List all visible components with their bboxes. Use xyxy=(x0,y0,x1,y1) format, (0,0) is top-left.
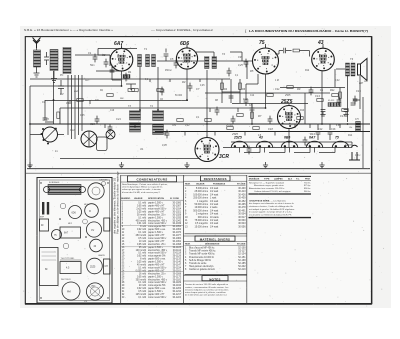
extra tiny value labels xyxy=(66,64,359,147)
svg-text:0,02 mfd: 0,02 mfd xyxy=(137,288,147,290)
svg-text:0,05 mfd: 0,05 mfd xyxy=(137,206,147,208)
svg-text:15.000 ohms: 15.000 ohms xyxy=(195,226,209,228)
table header band rules xyxy=(121,176,247,281)
capacitor C24 xyxy=(244,100,249,106)
dial lamp xyxy=(106,130,115,139)
svg-text:mica moulé 500 v: mica moulé 500 v xyxy=(148,282,167,284)
svg-text:0,02: 0,02 xyxy=(335,80,340,82)
chassis: IF can xyxy=(85,204,99,218)
svg-text:CONDENSATEURS: CONDENSATEURS xyxy=(136,178,167,182)
resistor R17 vertical xyxy=(239,83,242,89)
svg-text:30-1147: 30-1147 xyxy=(173,265,182,267)
svg-text:40 mmfd: 40 mmfd xyxy=(137,265,147,267)
heater 6A7 xyxy=(306,141,322,147)
svg-text:30-1224: 30-1224 xyxy=(172,297,181,299)
svg-text:8 mfd: 8 mfd xyxy=(140,259,147,261)
svg-text:DÉSIGNATION: DÉSIGNATION xyxy=(205,243,220,246)
svg-text:C18: C18 xyxy=(268,127,273,131)
svg-text:1 watt: 1 watt xyxy=(210,197,217,200)
condensateurs intro paragraph xyxy=(122,183,168,194)
header brace xyxy=(245,28,247,33)
resistor R21 xyxy=(57,112,60,118)
svg-text:3CR: 3CR xyxy=(219,154,229,160)
condensateurs group rules xyxy=(121,226,183,272)
svg-text:75: 75 xyxy=(335,136,339,140)
tube 6A7 xyxy=(110,46,133,71)
svg-text:0,1 mfd: 0,1 mfd xyxy=(138,282,146,284)
chassis: tube 6D6 location xyxy=(69,206,82,219)
capacitor C23 xyxy=(229,96,234,98)
heater 43 xyxy=(256,141,272,147)
volume potentiometer with switch xyxy=(41,127,58,145)
svg-text:C13: C13 xyxy=(315,94,320,98)
svg-text:C14: C14 xyxy=(318,128,323,131)
svg-text:8 mfd: 8 mfd xyxy=(140,226,147,228)
screen bypass near 6D6 xyxy=(230,52,242,61)
chassis: tuning condenser CV xyxy=(86,222,101,237)
svg-text:0,1 mfd: 0,1 mfd xyxy=(138,217,146,219)
svg-text:R1: R1 xyxy=(128,70,132,74)
svg-text:C1: C1 xyxy=(88,51,92,55)
svg-text:PHI: PHI xyxy=(67,292,71,294)
svg-text:30-1140: 30-1140 xyxy=(173,262,182,264)
svg-text:N°CODE: N°CODE xyxy=(237,244,246,246)
svg-text:30-1112: 30-1112 xyxy=(173,250,182,252)
svg-text:0,5 mfd: 0,5 mfd xyxy=(138,291,146,293)
svg-text:875 frs: 875 frs xyxy=(304,185,311,187)
svg-text:25Z5: 25Z5 xyxy=(280,99,293,105)
svg-text:25Z5: 25Z5 xyxy=(233,136,242,140)
svg-text:HP: HP xyxy=(92,286,96,288)
svg-text:AP: AP xyxy=(363,79,368,83)
resistor network between 6D6 and 75 xyxy=(222,79,240,103)
svg-text:30-1168: 30-1168 xyxy=(173,273,182,275)
switch contacts near volume xyxy=(30,134,64,136)
svg-text:MATÉRIEL DIVERS: MATÉRIEL DIVERS xyxy=(200,236,231,241)
svg-text:continu ; consommation 40 watt: continu ; consommation 40 watts environ.… xyxy=(185,286,228,289)
chassis: mounting dots xyxy=(40,182,108,298)
svg-text:Ebenisterie noyer, grande séri: Ebenisterie noyer, grande série xyxy=(254,184,284,187)
svg-text:1/4 watt: 1/4 watt xyxy=(210,222,219,225)
table column rules xyxy=(121,175,247,304)
svg-text:0,05: 0,05 xyxy=(80,115,85,117)
svg-text:30-1014: 30-1014 xyxy=(172,209,181,211)
svg-text:papier 400 v HT: papier 400 v HT xyxy=(148,264,165,267)
svg-text:mica moulé 500 v: mica moulé 500 v xyxy=(148,223,167,225)
svg-text:mica moulé 500 v: mica moulé 500 v xyxy=(148,238,167,240)
detector wire from 6D6 to 75 xyxy=(196,52,214,57)
grid resistor R19 under 6A7 xyxy=(123,75,130,79)
svg-text:250.000 ohms: 250.000 ohms xyxy=(193,198,209,200)
svg-text:30-1000: 30-1000 xyxy=(172,203,181,205)
IF transformer T3 winding a xyxy=(130,111,141,133)
resistor R18 vertical xyxy=(251,112,254,118)
resistor R22 xyxy=(339,92,342,98)
osc grid line xyxy=(98,55,110,66)
svg-text:125 mmfd: 125 mmfd xyxy=(136,294,147,296)
svg-text:1/2 watt: 1/2 watt xyxy=(210,219,219,222)
svg-text:papier 400 v HT: papier 400 v HT xyxy=(148,234,165,237)
svg-text:C17: C17 xyxy=(340,114,345,118)
svg-text:GO: GO xyxy=(85,80,89,82)
svg-text:R3: R3 xyxy=(182,80,186,84)
notes paragraph xyxy=(185,283,229,296)
svg-text:papier 600 v ess.: papier 600 v ess. xyxy=(148,287,166,290)
svg-text:30-543: 30-543 xyxy=(238,223,246,225)
svg-text:52-219: 52-219 xyxy=(238,269,246,271)
chassis: small grommet xyxy=(60,203,66,209)
svg-text:750 frs: 750 frs xyxy=(304,182,311,184)
svg-text:tensions indiquées au schéma s: tensions indiquées au schéma sont mesuré… xyxy=(185,288,228,291)
svg-text:C5: C5 xyxy=(170,57,174,61)
header text left: M.B.E. n 16 Boulevard Exterieur Reproduction Interdite xyxy=(24,28,113,32)
svg-text:Alimentation tous courants 110: Alimentation tous courants 110-130 v. xyxy=(249,187,285,190)
svg-text:T.C.: T.C. xyxy=(296,178,300,180)
svg-text:papier 1.500 v: papier 1.500 v xyxy=(148,202,164,205)
svg-text:papier 1.500 v: papier 1.500 v xyxy=(148,261,164,264)
svg-text:C16: C16 xyxy=(331,128,336,131)
resistor R20 xyxy=(128,89,134,92)
svg-text:30-1126: 30-1126 xyxy=(173,256,182,258)
svg-text:le courant appelé ; la lampe t: le courant appelé ; la lampe témoin 6 v.… xyxy=(249,211,293,214)
chassis: loudspeaker xyxy=(86,283,103,300)
capacitors scattered (C3..C22) xyxy=(93,54,358,155)
svg-text:électrochim. 25 v: électrochim. 25 v xyxy=(148,243,166,246)
cathode parts under 6A7 xyxy=(112,66,136,90)
condensateurs rows xyxy=(122,202,182,299)
junction dots xyxy=(29,85,348,143)
svg-text:6A7: 6A7 xyxy=(114,41,123,47)
svg-text:électrochim. 450 v: électrochim. 450 v xyxy=(148,249,168,252)
wire bus horizontal set xyxy=(30,49,352,159)
svg-text:Vol.: Vol. xyxy=(140,149,144,151)
svg-text:1/2 watt: 1/2 watt xyxy=(210,190,219,193)
B- bus wire xyxy=(155,131,370,133)
svg-text:mica moulé 500 v: mica moulé 500 v xyxy=(148,253,167,255)
svg-text:R11: R11 xyxy=(330,88,335,92)
trimmer capacitor C1 xyxy=(44,52,49,65)
svg-text:papier 600 v ess.: papier 600 v ess. xyxy=(148,258,166,261)
svg-text:0,1 mfd: 0,1 mfd xyxy=(138,232,146,234)
svg-text:30-1077: 30-1077 xyxy=(172,235,181,237)
svg-text:papier 400 v HT: papier 400 v HT xyxy=(148,269,165,272)
resistances table header xyxy=(201,176,231,181)
svg-text:est indiqué à gauche. Un balla: est indiqué à gauche. Un ballast 3CR rég… xyxy=(249,208,295,211)
loudspeaker HP xyxy=(358,59,368,81)
svg-text:500.000 ohms: 500.000 ohms xyxy=(193,210,209,212)
svg-text:110 v: 110 v xyxy=(355,155,361,157)
svg-text:0,05 mfd: 0,05 mfd xyxy=(137,276,147,278)
svg-text:52-202: 52-202 xyxy=(238,266,246,268)
svg-text:30-439: 30-439 xyxy=(238,198,246,200)
chassis ground bus wire xyxy=(27,168,370,170)
svg-text:papier 400 v HT: papier 400 v HT xyxy=(148,205,165,208)
label 75 xyxy=(259,40,265,46)
svg-text:0,1 mfd: 0,1 mfd xyxy=(138,253,146,255)
materiel divers column header xyxy=(185,243,246,246)
svg-text:mica argenté 5%: mica argenté 5% xyxy=(148,284,165,287)
svg-text:VALEUR: VALEUR xyxy=(134,197,143,200)
svg-text:CH: CH xyxy=(105,266,109,268)
chassis: label TH PITT xyxy=(60,258,81,260)
header text middle: Importateur DANIEL xyxy=(151,28,213,32)
capacitor C27 top mid xyxy=(164,49,169,62)
svg-text:d'essai des 8 à MF, et de serv: d'essai des 8 à MF, et de service para 2… xyxy=(122,191,161,194)
svg-text:100.000 ohms: 100.000 ohms xyxy=(193,194,209,196)
chassis: tube 25Z5 location xyxy=(87,258,103,274)
IF transformer T2 xyxy=(205,57,217,69)
svg-text:TH. PITTORD: TH. PITTORD xyxy=(61,258,75,260)
svg-text:30-1196: 30-1196 xyxy=(173,285,182,287)
svg-text:52-185: 52-185 xyxy=(238,263,246,265)
svg-text:0,1 mfd: 0,1 mfd xyxy=(138,268,146,270)
svg-text:R9: R9 xyxy=(297,87,301,91)
ballast resistor top right xyxy=(328,100,341,107)
label 6A7 xyxy=(114,41,123,47)
svg-text:C9: C9 xyxy=(238,55,242,59)
svg-text:2x10 mfd: 2x10 mfd xyxy=(136,209,146,211)
svg-text:10 mfd: 10 mfd xyxy=(139,241,147,243)
svg-text:30-465: 30-465 xyxy=(238,204,246,206)
wire from R23 to 43 grid xyxy=(299,51,309,57)
svg-text:2 mégohms: 2 mégohms xyxy=(196,214,209,216)
svg-text:30-1007: 30-1007 xyxy=(172,206,181,208)
svg-text:entre chaque point et le châss: entre chaque point et le châssis, contrô… xyxy=(185,291,226,294)
svg-text:30-1091: 30-1091 xyxy=(172,241,181,243)
svg-text:papier 1.500 v: papier 1.500 v xyxy=(148,275,164,278)
svg-text:FI: FI xyxy=(89,211,91,213)
condensateurs column header xyxy=(121,197,180,200)
svg-text:osc.: osc. xyxy=(120,98,125,100)
svg-text:52-117: 52-117 xyxy=(238,251,246,253)
rotated caption: plan de cablage xyxy=(111,171,119,234)
svg-text:mica moulé 500 v: mica moulé 500 v xyxy=(148,268,167,270)
output transformer T5 xyxy=(346,63,356,76)
oscillator coil L3 xyxy=(63,48,71,74)
models table rows xyxy=(249,181,311,192)
svg-text:C20: C20 xyxy=(90,122,95,126)
svg-text:CHAUFFAGE SÉRIE. — Les filamen: CHAUFFAGE SÉRIE. — Les filaments xyxy=(249,199,286,202)
ground below antenna coil xyxy=(34,67,40,77)
svg-text:SECTEUR: SECTEUR xyxy=(61,279,71,281)
svg-text:de 1.000 ohms par volt, positi: de 1.000 ohms par volt, position volume … xyxy=(185,294,227,297)
svg-text:30-530: 30-530 xyxy=(238,220,246,222)
svg-text:Tension du secteur 110-130 vol: Tension du secteur 110-130 volts alterna… xyxy=(185,283,229,286)
grid resistor R23 of 43 xyxy=(293,49,299,52)
label AP near speaker xyxy=(363,79,368,83)
header title bold: LA DOCUMENTATION DU REVENDEUR-RADIO xyxy=(249,29,368,33)
chassis: side bracket right xyxy=(104,218,110,231)
svg-text:50.000: 50.000 xyxy=(175,95,183,97)
svg-text:30-1133: 30-1133 xyxy=(173,259,182,261)
svg-text:41-513: 41-513 xyxy=(328,100,335,102)
svg-text:Transfo de sortie: Transfo de sortie xyxy=(189,262,207,265)
svg-text:R14: R14 xyxy=(348,135,353,137)
chassis: tiny labels xyxy=(40,179,108,304)
svg-text:1/4 watt: 1/4 watt xyxy=(210,200,219,203)
svg-text:52-100: 52-100 xyxy=(238,248,246,250)
svg-text:50 mmfd: 50 mmfd xyxy=(137,214,147,216)
svg-text:ON: ON xyxy=(172,123,176,127)
models table top rule xyxy=(249,175,312,177)
svg-text:R12: R12 xyxy=(305,70,310,72)
svg-text:N.B.E. « 16 Boulevard Extérieu: N.B.E. « 16 Boulevard Extérieur » — « Re… xyxy=(24,28,113,32)
svg-text:Bloc d'accord MF 456 kc: Bloc d'accord MF 456 kc xyxy=(189,247,215,250)
svg-text:0,01 mfd: 0,01 mfd xyxy=(137,223,147,225)
svg-text:75: 75 xyxy=(259,40,265,46)
heater 25Z5 xyxy=(231,141,247,147)
svg-text:1/4 watt: 1/4 watt xyxy=(210,193,219,196)
extra junction ticks xyxy=(70,79,340,136)
chauffage serie paragraph xyxy=(249,199,295,216)
page frame border xyxy=(25,37,372,304)
right side dropper network xyxy=(340,88,360,110)
svg-text:Potentiomètre 10.000 Ω: Potentiomètre 10.000 Ω xyxy=(189,256,214,259)
svg-text:BOBINAGE: BOBINAGE xyxy=(49,181,60,184)
svg-text:0,25: 0,25 xyxy=(238,64,243,67)
svg-text:papier 400 v HT: papier 400 v HT xyxy=(148,293,165,296)
chassis: tube 6A7 plate xyxy=(60,227,81,238)
heater chain bus xyxy=(223,142,352,148)
svg-text:C11: C11 xyxy=(275,87,280,91)
svg-text:Haut-parleur électrodyn.: Haut-parleur électrodyn. xyxy=(189,265,214,268)
svg-text:30-1119: 30-1119 xyxy=(173,253,182,255)
svg-text:30-1210: 30-1210 xyxy=(172,291,181,293)
svg-text:1/4 watt: 1/4 watt xyxy=(210,225,219,228)
svg-text:papier 1.500 v: papier 1.500 v xyxy=(148,231,164,234)
wire bus vertical set xyxy=(30,48,363,168)
chassis: grommet small 2 xyxy=(63,243,69,249)
svg-text:0,05: 0,05 xyxy=(162,144,167,147)
svg-text:Self de filtrage 300 Ω: Self de filtrage 300 Ω xyxy=(189,259,211,262)
capacitor C28 xyxy=(351,103,356,105)
electrolytic C29 C30 near 25Z5 xyxy=(316,124,333,140)
tables top rule / schematic bottom divider xyxy=(26,172,371,174)
svg-text:2 watts: 2 watts xyxy=(210,206,218,209)
resistors scattered (R1..R15) xyxy=(77,86,348,130)
svg-text:Int.: Int. xyxy=(55,150,59,153)
svg-text:1/4 watt: 1/4 watt xyxy=(210,209,219,212)
svg-text:papier 1.500 v: papier 1.500 v xyxy=(148,290,164,293)
resistor R16 vertical xyxy=(221,83,224,89)
svg-text:— Importateur DANIEL, Importa: — Importateur DANIEL, Importateur xyxy=(151,28,213,32)
IF transformer T4 winding xyxy=(153,111,164,135)
svg-text:est shuntée sur l'élément du b: est shuntée sur l'élément du ballast 3CR… xyxy=(249,213,292,216)
svg-text:30-556: 30-556 xyxy=(238,226,246,228)
bypass capacitor C33 xyxy=(343,110,348,117)
chassis: dial PHI xyxy=(62,282,80,300)
svg-text:osc: osc xyxy=(74,90,79,93)
chassis: choke CH xyxy=(104,259,111,274)
svg-text:30-1098: 30-1098 xyxy=(172,244,181,246)
svg-text:0,02 mfd: 0,02 mfd xyxy=(137,256,147,258)
svg-text:25.000: 25.000 xyxy=(226,125,234,127)
svg-text:25Z5: 25Z5 xyxy=(90,267,96,269)
svg-text:NUM.: NUM. xyxy=(185,244,191,246)
svg-text:C7: C7 xyxy=(196,87,200,91)
svg-text:NOTES: NOTES xyxy=(209,277,220,281)
svg-text:C12: C12 xyxy=(250,95,255,97)
mains plug symbol bottom right xyxy=(349,145,360,160)
svg-text:C15: C15 xyxy=(356,89,361,93)
svg-text:30-1042: 30-1042 xyxy=(172,220,181,222)
svg-text:Cadran et galette démult.: Cadran et galette démult. xyxy=(189,268,215,271)
svg-text:30-1217: 30-1217 xyxy=(172,294,181,296)
svg-text:mica argenté 5%: mica argenté 5% xyxy=(148,255,165,258)
svg-text:52-168: 52-168 xyxy=(238,260,246,262)
chassis layout box xyxy=(37,178,112,304)
svg-text:890 frs: 890 frs xyxy=(304,188,311,190)
tuning capacitor xyxy=(81,131,97,147)
svg-text:0,05 mfd: 0,05 mfd xyxy=(137,244,147,246)
svg-text:électrochim. 25 v: électrochim. 25 v xyxy=(148,272,166,275)
svg-text:1 M: 1 M xyxy=(275,80,279,82)
diode detector parts under 75 xyxy=(246,74,258,100)
svg-text:mica moulé 500 v: mica moulé 500 v xyxy=(148,297,167,299)
svg-text:30-1021: 30-1021 xyxy=(172,211,181,213)
chassis: ballast block xyxy=(60,262,81,274)
svg-text:25 mfd: 25 mfd xyxy=(139,247,147,249)
top grid cap leads xyxy=(122,44,324,48)
label 43 xyxy=(317,40,324,46)
svg-text:papier 1.500 v: papier 1.500 v xyxy=(148,216,164,219)
capacitor C25 xyxy=(110,70,115,72)
svg-text:2525: 2525 xyxy=(284,94,291,97)
label 3CR xyxy=(219,154,229,160)
svg-text:CV2: CV2 xyxy=(70,130,75,132)
svg-text:des lampes sont alimentés en s: des lampes sont alimentés en série à tra… xyxy=(249,202,295,205)
svg-text:400 mmfd: 400 mmfd xyxy=(136,220,147,222)
svg-text:30-1175: 30-1175 xyxy=(173,276,182,278)
svg-text:10 watts: 10 watts xyxy=(210,216,220,219)
wire 75 plate to coupling xyxy=(275,51,279,55)
svg-text:1 mégohm: 1 mégohm xyxy=(197,201,208,203)
bypass capacitor C32 xyxy=(320,110,325,117)
svg-text:30-1063: 30-1063 xyxy=(172,229,181,231)
condensateurs table header xyxy=(128,176,177,182)
svg-text:valeur qui par rapport en volt: valeur qui par rapport en volts ; à tens… xyxy=(122,188,162,191)
svg-text:30-1070: 30-1070 xyxy=(172,232,181,234)
svg-text:30-491: 30-491 xyxy=(238,210,246,212)
svg-text:CADRAN: CADRAN xyxy=(99,179,108,182)
svg-text:30-1056: 30-1056 xyxy=(172,226,181,228)
chassis: tuning drum xyxy=(88,182,106,200)
label 25Z5 xyxy=(280,99,293,105)
svg-text:52-134: 52-134 xyxy=(238,254,246,256)
svg-text:N°CODE: N°CODE xyxy=(237,184,246,186)
materiel divers header xyxy=(195,236,235,241)
svg-text:5.000 ohms: 5.000 ohms xyxy=(196,188,209,190)
chassis: antenna coil cylinder xyxy=(44,185,86,195)
heater 6B6 xyxy=(281,141,297,147)
heater 75 xyxy=(332,141,348,147)
svg-text:960 frs: 960 frs xyxy=(304,191,311,193)
chassis: power transformer xyxy=(40,248,59,286)
IF transformer T1 xyxy=(138,55,156,67)
svg-text:NUMERO: NUMERO xyxy=(121,198,131,200)
svg-text:43: 43 xyxy=(258,136,263,140)
svg-text:30-478: 30-478 xyxy=(238,207,246,209)
svg-text:CH: CH xyxy=(355,118,359,121)
svg-text:ALT.: ALT. xyxy=(288,177,293,180)
tube 43 xyxy=(312,46,335,71)
scan noise xyxy=(23,27,385,307)
resistances column header xyxy=(185,183,246,186)
svg-text:75.000 ohms: 75.000 ohms xyxy=(195,220,209,222)
chassis: tube 43 location xyxy=(90,239,103,252)
svg-text:SPECIFICATION: SPECIFICATION xyxy=(148,197,164,200)
svg-text:0,1 mfd: 0,1 mfd xyxy=(138,203,146,205)
